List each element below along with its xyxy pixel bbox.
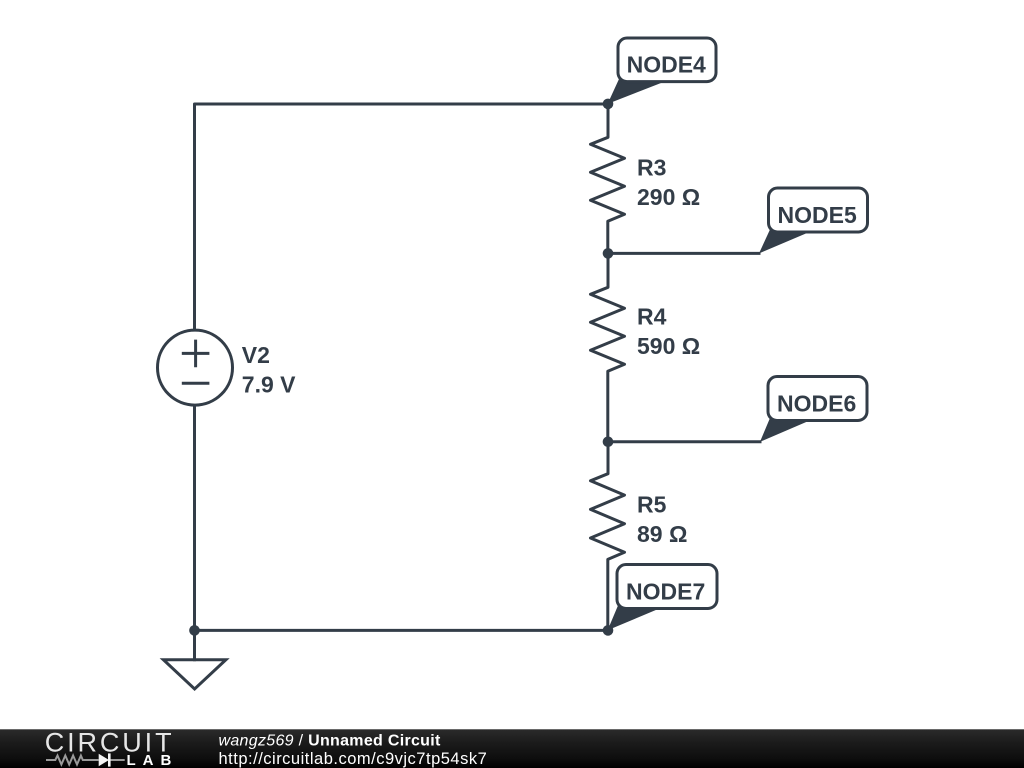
- svg-text:wangz569 / Unnamed Circuit: wangz569 / Unnamed Circuit: [219, 732, 441, 749]
- svg-text:V2: V2: [242, 342, 270, 368]
- resistor R4: [591, 253, 625, 441]
- wire top horizontal: [195, 104, 609, 330]
- svg-text:http://circuitlab.com/c9vjc7tp: http://circuitlab.com/c9vjc7tp54sk7: [219, 750, 488, 768]
- svg-text:R5: R5: [637, 492, 667, 518]
- svg-text:R3: R3: [637, 154, 666, 180]
- junction node D (NODE7): [603, 625, 614, 636]
- wire node5 horizontal: [608, 252, 759, 255]
- node NODE7 callout tail: [608, 606, 660, 631]
- ground stub wire: [193, 630, 196, 659]
- svg-text:NODE7: NODE7: [626, 579, 705, 605]
- node NODE6 callout tail: [760, 418, 810, 442]
- wire node6 horizontal: [608, 440, 760, 443]
- junction node A top-right: [603, 99, 614, 110]
- svg-text:290 Ω: 290 Ω: [637, 184, 700, 210]
- svg-text:7.9 V: 7.9 V: [242, 372, 296, 398]
- svg-text:89 Ω: 89 Ω: [637, 521, 687, 547]
- node NODE7 callout box: [617, 565, 717, 609]
- footer bar: [0, 729, 1024, 768]
- svg-text:590 Ω: 590 Ω: [637, 333, 700, 359]
- svg-text:NODE5: NODE5: [778, 202, 857, 228]
- resistor R5: [591, 442, 625, 631]
- wire bottom horizontal: [195, 629, 609, 632]
- node NODE5 callout tail: [759, 230, 810, 254]
- node NODE6 callout box: [768, 377, 867, 421]
- junction node C (NODE6): [603, 437, 614, 448]
- svg-text:LAB: LAB: [127, 752, 179, 768]
- node NODE4 callout box: [618, 38, 716, 82]
- CircuitLab logo diode cathode bar: [108, 753, 111, 766]
- svg-text:NODE4: NODE4: [627, 52, 706, 78]
- node NODE5 callout box: [769, 188, 868, 232]
- ground symbol: [163, 660, 226, 689]
- junction node B (NODE5): [603, 248, 614, 259]
- CircuitLab logo resistor-diode glyph: [46, 756, 125, 765]
- CircuitLab logo diode triangle: [99, 754, 109, 766]
- node NODE4 callout tail: [608, 79, 661, 104]
- svg-text:NODE6: NODE6: [777, 391, 856, 417]
- V2 plus sign: [183, 341, 208, 366]
- voltage source V2 circle: [158, 330, 233, 405]
- junction node E bottom-left: [189, 625, 200, 636]
- svg-text:R4: R4: [637, 303, 667, 329]
- resistor R3: [591, 104, 625, 253]
- wire left rail lower: [193, 406, 196, 631]
- V2 minus sign: [183, 382, 208, 385]
